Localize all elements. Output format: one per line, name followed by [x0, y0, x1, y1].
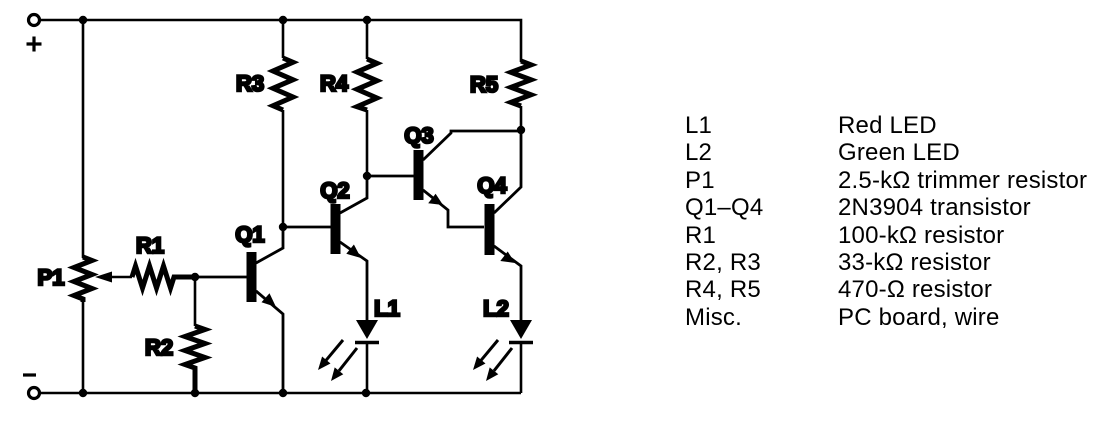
node top-left junction [79, 16, 87, 24]
wire bottom rail [40, 392, 521, 395]
svg-text:R5: R5 [470, 72, 498, 97]
svg-text:Q1: Q1 [235, 222, 264, 247]
resistor R1 [132, 266, 195, 288]
svg-text:R4: R4 [320, 71, 349, 96]
LED L2 [473, 320, 533, 393]
svg-text:Q3: Q3 [404, 123, 433, 148]
svg-text:L1: L1 [374, 296, 400, 321]
node R2 bottom junction [191, 389, 199, 397]
svg-text:R3: R3 [236, 71, 264, 96]
node L1 bottom junction [362, 389, 370, 397]
parts list [685, 112, 1087, 331]
node Q3 collector / R5 junction [517, 126, 525, 134]
resistor R4 [357, 20, 377, 176]
node top R3 junction [279, 16, 287, 24]
svg-text:Q2: Q2 [320, 178, 349, 203]
node R1/R2/base junction [191, 273, 199, 281]
transistor Q2 [283, 176, 367, 320]
- terminal [23, 375, 40, 399]
transistor Q4 [485, 130, 522, 320]
node bottom-left junction [79, 389, 87, 397]
transistor Q1 [195, 227, 283, 393]
transistor Q3 [367, 131, 521, 227]
+ terminal [27, 15, 42, 52]
resistor R2 [185, 281, 205, 393]
node Q1 collector junction [279, 223, 287, 231]
wire top rail [40, 20, 521, 62]
svg-text:Q4: Q4 [477, 173, 507, 198]
svg-text:R2: R2 [145, 335, 173, 360]
resistor R5 [511, 61, 531, 130]
wire left rail lower [82, 301, 85, 393]
svg-text:L2: L2 [483, 296, 509, 321]
svg-text:R1: R1 [136, 233, 164, 258]
node top R4 junction [363, 16, 371, 24]
node Q2 collector junction [363, 172, 371, 180]
resistor R3 [273, 20, 293, 227]
svg-text:P1: P1 [38, 265, 65, 290]
node Q1 emitter bottom junction [279, 389, 287, 397]
wire left rail upper [82, 20, 85, 258]
potentiometer P1 [74, 257, 132, 302]
LED L1 [318, 320, 379, 393]
